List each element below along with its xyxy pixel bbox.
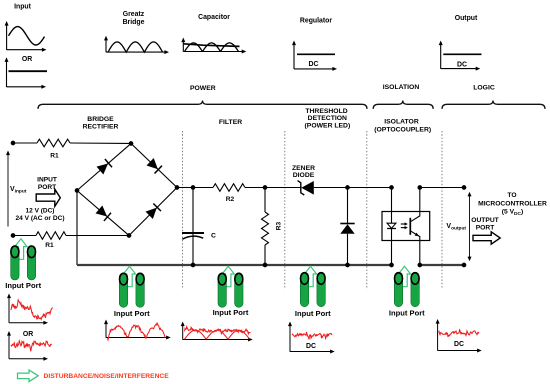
node: bridge top vertex: [129, 142, 133, 146]
diode D2 (bridge top-right): [146, 158, 162, 174]
input port icon 2 right pin: [136, 273, 144, 308]
Input DC flat line: [9, 70, 48, 72]
svg-text:R3: R3: [276, 221, 283, 230]
svg-text:Capacitor: Capacitor: [198, 14, 230, 21]
svg-text:C: C: [211, 233, 216, 240]
input port icon 4 right pin: [317, 272, 325, 307]
svg-text:R2: R2: [226, 196, 235, 203]
graph: noisy ripple axes: [181, 322, 253, 342]
svg-text:DC: DC: [457, 62, 467, 69]
svg-text:R1: R1: [45, 242, 54, 249]
Voutput measurement arrow: [469, 194, 471, 259]
resistor R1 (bottom): [36, 232, 66, 240]
graph: Capacitor smoothing waveform axes: [181, 38, 246, 54]
wire: R3 branch top: [264, 188, 266, 213]
graph: noisy DC output axes: [436, 319, 482, 353]
svg-text:BRIDGE: BRIDGE: [87, 116, 114, 123]
node: capacitor top junction: [191, 186, 195, 190]
node: power LED bottom junction: [346, 263, 350, 267]
node: bottom input terminal: [11, 234, 15, 238]
bridge rectifier diamond wires: [77, 144, 177, 236]
input port icon 5 left pin: [394, 272, 402, 307]
diode D3 (bridge left-bottom): [95, 205, 111, 221]
input port icon 5 right pin: [411, 272, 419, 307]
svg-text:Output: Output: [455, 15, 478, 22]
svg-text:DIODE: DIODE: [293, 172, 315, 179]
svg-text:INPUT: INPUT: [37, 177, 57, 184]
svg-text:PORT: PORT: [38, 184, 56, 191]
input port icon 2 left pin: [119, 273, 127, 308]
svg-text:DC: DC: [306, 343, 316, 350]
svg-text:OR: OR: [22, 56, 32, 63]
resistor R2: [213, 184, 245, 192]
node: opto LED bottom junction: [390, 263, 394, 267]
svg-text:DC: DC: [454, 341, 464, 348]
node: top rail right end: [462, 186, 466, 190]
graph: Input AC waveform axes: [5, 21, 47, 52]
svg-text:OR: OR: [23, 331, 33, 338]
diode D1 (bridge left-top): [96, 159, 112, 175]
opto light arrow lower: [401, 226, 408, 229]
svg-text:ZENER: ZENER: [292, 165, 315, 172]
Vinput measurement arrow: [7, 153, 9, 227]
opto LED triangle: [387, 223, 396, 228]
wire: opto LED branch top: [391, 188, 393, 224]
wire: opto LED branch bottom: [391, 229, 393, 266]
svg-text:Input Port: Input Port: [213, 308, 249, 317]
brace LOGIC section: [442, 101, 545, 109]
dashed section separator 1: [182, 131, 184, 290]
node: R3 bottom junction: [263, 263, 267, 267]
svg-text:Greatz: Greatz: [123, 11, 145, 18]
noisy AC sine (red): [11, 300, 53, 319]
wire: top rail R2 to zener: [245, 187, 301, 189]
resistor R1 (top): [37, 139, 70, 147]
svg-text:POWER: POWER: [190, 85, 216, 92]
svg-text:DC: DC: [309, 61, 319, 68]
node: optocoupler LED top junction: [390, 186, 394, 190]
wire: top wire to bridge: [70, 142, 131, 145]
input port icon 1 left pin: [11, 246, 19, 281]
graph: noisy DC input axes: [7, 331, 48, 361]
node: bridge left vertex: [75, 189, 79, 193]
noisy rectified humps (red): [108, 323, 166, 340]
diode D4 (bridge bottom-right): [145, 204, 161, 220]
svg-text:24 V (AC or DC): 24 V (AC or DC): [15, 215, 64, 222]
input port icon 5 green up-arrow: [398, 266, 410, 287]
node: top input terminal: [11, 141, 15, 145]
noisy DC line 2 (red): [292, 332, 332, 339]
power LED diode (cathode bar): [340, 223, 354, 225]
input port icon 4 green up-arrow: [304, 266, 316, 287]
svg-text:ISOLATION: ISOLATION: [383, 84, 420, 91]
input port icon 3 left pin: [218, 273, 226, 308]
power LED diode triangle: [340, 224, 354, 234]
svg-text:Input Port: Input Port: [295, 309, 331, 318]
graph: Greatz Bridge rectified waveform axes: [104, 36, 169, 54]
svg-text:TO: TO: [507, 192, 516, 199]
node: capacitor bottom junction: [191, 263, 195, 267]
svg-text:Input Port: Input Port: [5, 281, 41, 290]
svg-text:DISTURBANCE/NOISE/INTERFERENCE: DISTURBANCE/NOISE/INTERFERENCE: [44, 373, 170, 380]
dashed section separator 3: [366, 131, 368, 290]
graph: Output DC axes: [439, 41, 481, 71]
svg-text:RECTIFIER: RECTIFIER: [83, 124, 119, 131]
noisy ripple top line (red): [185, 327, 251, 334]
node: bottom rail right end: [462, 263, 466, 267]
Output DC level line: [443, 53, 481, 55]
noisy ripple humps (red): [185, 330, 250, 339]
svg-text:LOGIC: LOGIC: [473, 85, 495, 92]
Input AC sine curve: [9, 27, 45, 45]
svg-text:ISOLATOR: ISOLATOR: [384, 119, 419, 126]
input port icon 1 right pin: [27, 246, 35, 281]
wire: top rail opto transistor to end: [420, 187, 464, 189]
brace ISOLATION section: [373, 101, 433, 109]
svg-text:Input Port: Input Port: [389, 309, 425, 318]
svg-text:Input: Input: [14, 4, 32, 11]
wire: bottom return rail (input side): [77, 264, 392, 266]
wire: capacitor branch: [192, 188, 194, 266]
svg-text:FILTER: FILTER: [219, 119, 242, 126]
optocoupler U1 box: [382, 212, 430, 241]
node: bridge right vertex: [175, 186, 179, 190]
node: bridge bottom vertex: [127, 234, 131, 238]
graph: Input DC waveform axes: [5, 57, 47, 89]
capacitor discharge line: [183, 44, 239, 47]
wire: top rail bridge to R2: [177, 187, 213, 189]
svg-text:Bridge: Bridge: [123, 19, 145, 26]
node: opto transistor bottom junction: [418, 263, 422, 267]
svg-text:Input Port: Input Port: [114, 309, 150, 318]
opto LED cathode bar: [387, 228, 396, 230]
input port icon 4 left pin: [300, 272, 308, 307]
capacitor C plates: [182, 233, 204, 239]
graph: noisy rectified axes: [104, 320, 171, 340]
svg-text:THRESHOLD: THRESHOLD: [305, 108, 347, 115]
opto phototransistor emitter: [410, 231, 420, 265]
capacitor ripple humps: [185, 43, 239, 52]
wire: bottom input wire: [13, 235, 36, 237]
svg-text:12 V (DC): 12 V (DC): [26, 208, 55, 215]
svg-text:R1: R1: [50, 153, 59, 160]
wire: bridge negative down to bottom rail: [76, 191, 78, 266]
brace POWER section: [38, 101, 367, 109]
legend arrow (green): [18, 370, 39, 382]
node: power LED top junction: [346, 186, 350, 190]
opto phototransistor collector: [410, 188, 420, 222]
opto emitter arrowhead: [415, 233, 420, 238]
input port icon 2 green up-arrow: [123, 266, 135, 287]
noisy DC line 3 (red): [439, 330, 480, 337]
svg-text:PORT: PORT: [476, 225, 495, 232]
opto phototransistor base bar: [409, 218, 411, 235]
input port icon 1 green up-arrow: [15, 239, 27, 259]
wire: power LED branch top: [347, 188, 349, 224]
svg-text:MICROCONTROLLER: MICROCONTROLLER: [478, 201, 547, 208]
svg-text:DETECTION: DETECTION: [308, 115, 347, 122]
wire: R3 branch bottom: [264, 245, 266, 265]
svg-text:Regulator: Regulator: [300, 18, 332, 25]
resistor R3: [262, 212, 269, 245]
block arrow: input port: [36, 189, 60, 206]
opto light arrow upper: [401, 222, 408, 225]
node: optocoupler transistor top junction: [418, 186, 422, 190]
dashed section separator 4: [441, 131, 443, 290]
input port icon 3 green up-arrow: [222, 266, 234, 287]
input port icon 3 right pin: [235, 273, 243, 308]
wire: bottom return rail (logic side): [420, 264, 464, 266]
noisy DC line (red): [11, 341, 52, 351]
svg-text:(POWER LED): (POWER LED): [305, 123, 351, 130]
wire: power LED branch bottom: [347, 234, 349, 265]
wire: top input wire: [13, 142, 37, 144]
graph: noisy AC input axes: [7, 294, 48, 325]
graph: noisy DC after LED axes: [288, 322, 335, 354]
block arrow: output port: [473, 232, 500, 244]
zener diode (series): [298, 181, 314, 195]
rectified sine humps: [108, 42, 163, 52]
dashed section separator 2: [284, 131, 286, 290]
wire: bottom wire to bridge: [66, 235, 129, 237]
Regulator DC level line: [297, 53, 335, 55]
svg-text:(OPTOCOUPLER): (OPTOCOUPLER): [374, 126, 431, 133]
graph: Regulator DC axes: [292, 41, 337, 71]
node: R3 top junction: [263, 186, 267, 190]
wire: top rail zener to opto LED: [314, 187, 392, 189]
svg-text:OUTPUT: OUTPUT: [471, 217, 499, 224]
